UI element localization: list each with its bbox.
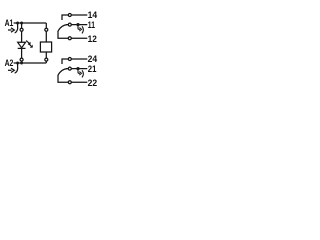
junction dot A2-b bbox=[20, 62, 23, 65]
svg-text:A2: A2 bbox=[5, 58, 14, 68]
contact 1: movable arm bbox=[58, 25, 67, 31]
contact 2: movable arm bbox=[58, 69, 67, 75]
pin circle 11 bbox=[68, 23, 71, 26]
contact 1: common wire 11 bbox=[66, 24, 87, 26]
contact 1: NO wire 14 bbox=[62, 15, 87, 20]
contact 1: NC wire 12 bbox=[58, 31, 87, 38]
plug pick-off A2: arrow into socket bbox=[8, 64, 18, 74]
svg-text:22: 22 bbox=[88, 78, 98, 89]
pin circle 24 bbox=[68, 58, 71, 61]
junction dot 21 bbox=[76, 67, 79, 70]
plug pick-off A1: arrow into socket bbox=[8, 24, 18, 33]
svg-text:12: 12 bbox=[88, 34, 97, 45]
contact 2: NO wire 24 bbox=[62, 59, 87, 64]
plug-in pin circle LED bottom bbox=[20, 58, 23, 61]
plug-in pin circle LED top bbox=[20, 28, 23, 31]
svg-text:21: 21 bbox=[88, 64, 97, 75]
junction dot 11 bbox=[76, 23, 79, 26]
LED emission arrows bbox=[26, 41, 33, 48]
wire A1 bbox=[14, 22, 47, 24]
plug-in pin circle coil top bbox=[45, 28, 48, 31]
wire LED branch vertical bbox=[21, 23, 23, 63]
junction dot A1-b bbox=[20, 22, 23, 25]
plug pick-off 21 hook bbox=[78, 69, 83, 77]
pin circle 22 bbox=[68, 81, 71, 84]
junction dot A1-a bbox=[16, 22, 19, 25]
contact 2: NC wire 22 bbox=[58, 75, 87, 82]
contact 2: common wire 21 bbox=[66, 68, 87, 70]
plug pick-off 11 hook bbox=[78, 25, 83, 33]
pin circle 14 bbox=[68, 14, 71, 17]
pin circle 21 bbox=[68, 67, 71, 70]
svg-text:11: 11 bbox=[88, 20, 96, 31]
wire coil branch top bbox=[45, 23, 47, 42]
pin circle 12 bbox=[68, 37, 71, 40]
plug-in pin circle coil bottom bbox=[45, 58, 48, 61]
LED D1 bbox=[18, 42, 26, 48]
svg-text:A1: A1 bbox=[5, 18, 14, 28]
wire A2 bbox=[14, 62, 47, 64]
relay coil K1 bbox=[40, 42, 51, 52]
wire coil branch bottom bbox=[45, 52, 47, 63]
junction dot A2-a bbox=[16, 62, 19, 65]
